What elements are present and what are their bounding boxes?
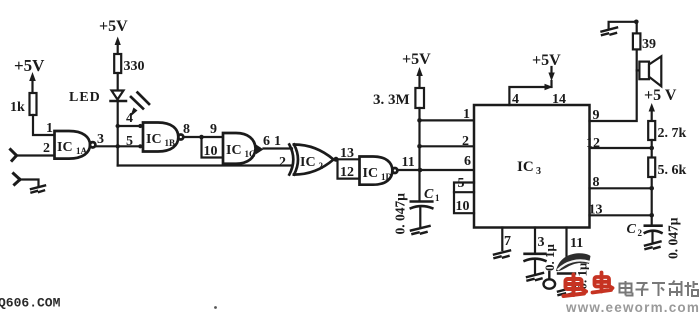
svg-text:14: 14 bbox=[552, 92, 566, 107]
stray dot bbox=[214, 306, 217, 309]
svg-text:Q606.COM: Q606.COM bbox=[0, 296, 61, 311]
svg-text:1: 1 bbox=[463, 107, 470, 122]
wire probe2 to ground bbox=[20, 180, 39, 187]
svg-text:3: 3 bbox=[97, 132, 104, 147]
wire IC3 pin2 bbox=[420, 145, 475, 147]
ground (C1) bbox=[411, 226, 430, 234]
wire pin4 to pin14 with arrow bbox=[509, 84, 553, 105]
power label +5V (above 3.3M) bbox=[402, 51, 431, 68]
svg-text:0. 047μ: 0. 047μ bbox=[666, 217, 681, 259]
svg-text:+5V: +5V bbox=[14, 56, 45, 75]
speaker stub bbox=[637, 69, 640, 71]
svg-text:IC: IC bbox=[226, 143, 242, 158]
node junction pin12 bbox=[649, 146, 654, 151]
wire 5.6k down to C2 bbox=[651, 177, 653, 226]
wire 2.7k to 5.6k bbox=[651, 140, 653, 158]
capacitor 0.1u (pin3) bbox=[525, 254, 546, 261]
node junction pin2 bbox=[417, 144, 422, 149]
power label +5 V (right) bbox=[644, 87, 677, 104]
svg-text:2: 2 bbox=[638, 228, 643, 238]
resistor 5.6k bbox=[648, 158, 686, 179]
node junction pin8 bbox=[649, 186, 654, 191]
svg-text:0. 047μ: 0. 047μ bbox=[393, 193, 408, 235]
resistor 39 bbox=[633, 33, 656, 52]
svg-text:10: 10 bbox=[204, 144, 218, 159]
svg-text:39: 39 bbox=[642, 37, 656, 52]
wire 39 top to ground hook bbox=[609, 22, 637, 34]
svg-text:1k: 1k bbox=[10, 100, 25, 115]
node junction on LED line bbox=[116, 144, 120, 148]
node XOR output bbox=[334, 157, 339, 162]
svg-text:8: 8 bbox=[183, 122, 190, 137]
svg-text:0. 1μ: 0. 1μ bbox=[542, 244, 557, 272]
wire IC1D out to IC3 pin6 bbox=[398, 169, 475, 171]
node junction pin1 bbox=[417, 118, 422, 123]
svg-text:1: 1 bbox=[46, 121, 53, 136]
wire C1 to ground bbox=[419, 208, 421, 227]
svg-text:5: 5 bbox=[126, 134, 133, 149]
power arrow down to pin14 bbox=[548, 67, 554, 87]
wire 1k to IC1A pin1 bbox=[33, 115, 55, 135]
svg-text:12: 12 bbox=[586, 136, 600, 151]
svg-text:1: 1 bbox=[435, 193, 440, 203]
node IC1B pin5 input bbox=[138, 144, 142, 148]
node junction pin13 bbox=[649, 213, 654, 218]
svg-text:13: 13 bbox=[589, 203, 603, 218]
svg-text:+5V: +5V bbox=[99, 18, 128, 35]
wire cap to ground (pin3) bbox=[534, 261, 536, 273]
wire 330 to LED bbox=[117, 73, 119, 90]
ground (C2) bbox=[645, 242, 661, 250]
wire IC3 pin9 to speaker bbox=[590, 50, 637, 122]
node IC1B pin4 input bbox=[138, 124, 142, 128]
resistor 330 bbox=[114, 54, 144, 74]
svg-text:+5V: +5V bbox=[402, 51, 431, 68]
wire IC1A out to IC1B pin5 bbox=[95, 145, 141, 147]
svg-text:2: 2 bbox=[319, 161, 324, 171]
wire IC3 pin8 bbox=[590, 187, 652, 189]
svg-text:IC: IC bbox=[146, 132, 162, 147]
wire LED to pin3 node and down to bus bbox=[117, 101, 119, 166]
svg-text:13: 13 bbox=[340, 146, 354, 161]
power arrow (center +5V) bbox=[115, 37, 121, 55]
wire IC3 pin12 bbox=[590, 147, 652, 149]
watermark chinese char bug1 (red) bbox=[564, 275, 587, 297]
ground (pin3 cap) bbox=[527, 273, 543, 281]
svg-text:5: 5 bbox=[458, 176, 465, 191]
power arrow (left +5V) bbox=[29, 72, 36, 93]
svg-text:LED: LED bbox=[69, 90, 101, 105]
svg-text:6: 6 bbox=[263, 134, 270, 149]
label C2 bbox=[627, 222, 643, 238]
resistor 1k bbox=[10, 93, 37, 115]
power arrow (2.7k) bbox=[649, 103, 655, 121]
svg-text:330: 330 bbox=[124, 59, 145, 74]
NAND gate IC1B bbox=[143, 123, 183, 152]
svg-text:3. 3M: 3. 3M bbox=[373, 92, 410, 108]
node junction pin4 bbox=[116, 124, 120, 128]
power label +5V (left) bbox=[14, 56, 45, 75]
wire probe1 to IC1A pin2 bbox=[17, 154, 55, 156]
svg-text:IC: IC bbox=[300, 155, 316, 170]
node junction on RC line bbox=[418, 168, 423, 173]
svg-text:IC: IC bbox=[517, 159, 534, 175]
svg-text:5. 6k: 5. 6k bbox=[658, 163, 687, 178]
capacitor C2 bbox=[645, 226, 662, 233]
node corner dot bbox=[634, 20, 639, 25]
svg-text:IC: IC bbox=[363, 166, 379, 181]
wire IC3 pin5 loop to pin10 bbox=[454, 183, 474, 214]
resistor 3.3M bbox=[373, 88, 424, 108]
svg-text:12: 12 bbox=[340, 165, 354, 180]
svg-text:2: 2 bbox=[279, 155, 286, 170]
wire pin4 of IC1B bbox=[118, 125, 141, 127]
svg-text:4: 4 bbox=[126, 111, 133, 126]
wire IC3 pin11 down bbox=[565, 228, 567, 259]
svg-text:2: 2 bbox=[43, 141, 50, 156]
wire loop to IC1D pin12 bbox=[338, 159, 360, 178]
svg-text:www.eeworm.com: www.eeworm.com bbox=[565, 300, 700, 313]
watermark beret logo bbox=[556, 253, 591, 271]
NAND gate IC1D bbox=[360, 157, 398, 185]
wire IC3 pin13 bbox=[590, 214, 652, 216]
svg-text:4: 4 bbox=[512, 92, 519, 107]
XOR gate IC2 bbox=[289, 145, 333, 175]
svg-text:9: 9 bbox=[210, 122, 217, 137]
polarity circle (pin11 cap) bbox=[544, 279, 556, 288]
wire bus IC1A/LED node to XOR pin2 bbox=[118, 164, 291, 166]
resistor 2.7k bbox=[648, 121, 686, 141]
power label +5V (IC3 top) bbox=[532, 52, 561, 69]
capacitor C1 bbox=[411, 202, 433, 209]
wire IC3 pin1 bbox=[420, 119, 475, 121]
label C1 bbox=[424, 187, 440, 203]
svg-text:7: 7 bbox=[504, 234, 511, 249]
IC IC3 body bbox=[474, 105, 590, 228]
svg-text:1: 1 bbox=[274, 134, 281, 149]
svg-text:9: 9 bbox=[593, 108, 600, 123]
svg-text:+5V: +5V bbox=[532, 52, 561, 69]
svg-text:11: 11 bbox=[570, 236, 583, 251]
svg-text:1C: 1C bbox=[245, 149, 256, 159]
svg-text:6: 6 bbox=[464, 154, 471, 169]
wire 3.3M down to C1 bbox=[418, 108, 420, 201]
power label +5V (center) bbox=[99, 18, 128, 35]
svg-text:C: C bbox=[627, 222, 637, 237]
svg-text:8: 8 bbox=[593, 175, 600, 190]
ground (probe2) bbox=[31, 186, 45, 193]
NAND gate IC1A bbox=[55, 131, 96, 159]
touch probe input 2 bbox=[14, 174, 21, 185]
svg-text:3: 3 bbox=[536, 166, 541, 177]
watermark text dianzi xiazaizhan (gray) bbox=[620, 281, 699, 297]
speaker LS bbox=[639, 56, 661, 86]
power arrow (3.3M +5V) bbox=[416, 67, 422, 88]
svg-text:11: 11 bbox=[402, 155, 415, 170]
NAND gate IC1C bbox=[223, 133, 264, 164]
svg-text:2: 2 bbox=[462, 134, 469, 149]
svg-text:1D: 1D bbox=[381, 172, 393, 182]
node junction 8-9 bbox=[199, 135, 204, 140]
wire C2 to ground bbox=[651, 233, 653, 242]
svg-text:C: C bbox=[424, 187, 434, 202]
LED light rays bbox=[130, 93, 149, 118]
svg-text:2. 7k: 2. 7k bbox=[658, 126, 687, 141]
LED D1 bbox=[111, 91, 127, 102]
svg-text:IC: IC bbox=[57, 140, 73, 155]
svg-text:+5 V: +5 V bbox=[644, 87, 677, 104]
ground (top right) bbox=[602, 28, 618, 36]
svg-text:1A: 1A bbox=[76, 146, 88, 156]
touch probe input 1 bbox=[11, 150, 17, 161]
svg-text:1B: 1B bbox=[165, 138, 176, 148]
wire IC3 pin7 to ground bbox=[501, 228, 503, 251]
wire loop to IC1C pin10 bbox=[202, 137, 224, 158]
capacitor (pin11, partly hidden) bbox=[549, 272, 575, 279]
wire IC1B out to IC1C pin9 bbox=[184, 136, 224, 138]
wire IC3 pin3 to cap bbox=[534, 228, 536, 254]
wire IC1C out to XOR pin1 bbox=[264, 147, 293, 149]
svg-text:10: 10 bbox=[456, 199, 470, 214]
ground (pin7) bbox=[494, 251, 510, 259]
wire XOR out to IC1D pin13 bbox=[334, 158, 360, 160]
ground (pin11 cap) bbox=[558, 287, 575, 295]
watermark chinese char bug2 (red) bbox=[593, 273, 613, 293]
